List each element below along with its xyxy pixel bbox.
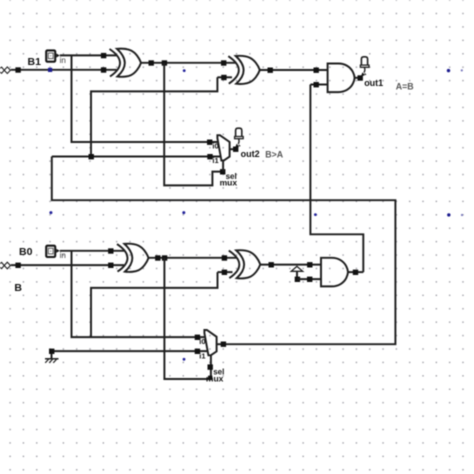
xor gate U1 (top xor1) xyxy=(110,49,142,77)
svg-text:A=B: A=B xyxy=(396,81,414,91)
junction i1 net at x91 xyxy=(89,154,94,159)
wire feedback and0 output up to and1 input B xyxy=(310,85,363,273)
node blue dot d xyxy=(314,213,317,216)
svg-text:i0: i0 xyxy=(212,141,218,150)
ground symbol xyxy=(45,353,59,363)
wire and1 input B xyxy=(310,84,327,86)
junction xor1t input B xyxy=(101,67,106,72)
node blue dot a xyxy=(183,69,186,72)
junction xor1b out a xyxy=(155,255,160,260)
wire i1 net long loop to mux0 output xyxy=(52,157,396,345)
wire sel path from xor1t out to mux1 sel xyxy=(164,63,222,186)
junction xor2t output xyxy=(268,68,273,73)
junction xor1t out a xyxy=(149,60,154,65)
junction mux0 output xyxy=(221,342,226,347)
junction vdd stub xyxy=(295,277,300,282)
svg-text:i0: i0 xyxy=(199,337,205,346)
wire B1 to xor1t input B xyxy=(11,69,117,71)
node blue dot g xyxy=(182,211,185,214)
wire ground to mux0 i1 xyxy=(52,350,209,352)
xor gate U6 (bottom xor2) xyxy=(229,250,260,278)
in port in1 xyxy=(46,50,59,61)
wire in1 drop to mux1 i0 xyxy=(72,55,219,142)
junction xor1t input A xyxy=(101,53,106,58)
svg-text:mux: mux xyxy=(220,178,238,188)
port B1 bowtie xyxy=(0,67,10,74)
wire xor1t output to xor2t input A xyxy=(141,62,236,64)
svg-text:mux: mux xyxy=(206,373,224,383)
node blue dot h xyxy=(447,213,450,216)
xor gate U5 (bottom xor1) xyxy=(117,244,149,272)
junction xor1b input A xyxy=(108,248,113,253)
junction xor2t input B xyxy=(221,75,226,80)
wire mux0 output stub xyxy=(217,343,221,345)
junction mux1 output xyxy=(233,147,238,152)
wire xor2t input B xyxy=(217,76,232,78)
junction mux0 sel xyxy=(208,364,213,369)
junction xor2b input A xyxy=(222,255,227,260)
junction and0 output xyxy=(353,270,358,275)
svg-text:out1: out1 xyxy=(364,78,383,88)
junction mux1 i1 xyxy=(207,154,212,159)
junction mux1 sel xyxy=(220,169,225,174)
wire xor2b input B xyxy=(218,271,233,273)
wire mux1 output stub xyxy=(230,148,234,150)
junction mux0 i0 xyxy=(195,335,200,340)
junction and1 input B xyxy=(314,82,319,87)
svg-text:in: in xyxy=(60,56,66,65)
svg-text:B>A: B>A xyxy=(265,150,283,160)
wire mux1 sel stub xyxy=(222,160,224,171)
led probe out1 xyxy=(360,57,369,77)
led probe out2 xyxy=(235,128,244,148)
in port in0 xyxy=(46,246,59,257)
wire feedback xor2t.B down to i1 net xyxy=(91,77,217,156)
junction xor1t out b xyxy=(162,60,167,65)
wire vdd to and0 input B xyxy=(297,278,321,280)
and gate U7 (bottom and) xyxy=(321,258,348,287)
wire i1 net horizontal xyxy=(52,156,221,158)
junction at B1 port xyxy=(15,67,20,72)
junction and0 input B xyxy=(307,277,312,282)
wire and0 output xyxy=(348,271,363,273)
svg-text:in: in xyxy=(60,251,66,260)
wire and1 output xyxy=(355,77,363,79)
junction xor2b output xyxy=(269,262,274,267)
port B0 bowtie xyxy=(0,262,10,269)
node blue dot f xyxy=(49,211,52,214)
node blue B1 wire xyxy=(48,68,52,72)
junction at B port xyxy=(15,263,20,268)
wire B to xor1b input B xyxy=(11,264,124,266)
junction xor1b input B xyxy=(108,263,113,268)
and gate U3 (top and) xyxy=(328,64,355,93)
junction mux0 sel corner xyxy=(208,376,212,380)
wire in0 drop to mux0 i0 xyxy=(72,251,206,337)
junction and1 input A xyxy=(314,68,319,73)
junction mux1 i0 xyxy=(207,140,212,145)
wire xor2t output to and1 input A xyxy=(260,69,328,71)
svg-text:i1: i1 xyxy=(212,156,218,165)
wire in0 to xor1b input A xyxy=(60,250,124,252)
junction and0 input A xyxy=(307,262,312,267)
mux U8 (bottom mux) xyxy=(204,330,216,355)
junction and1 output xyxy=(358,75,363,80)
junction xor2t input A xyxy=(221,60,226,65)
node blue dot e xyxy=(183,358,186,361)
wire xor1b output to xor2b input A xyxy=(148,257,236,259)
junction mux0 i1 xyxy=(195,349,200,354)
wire in1 to xor1t input A xyxy=(60,54,117,56)
wire xor2b output to and0 input A xyxy=(260,264,321,266)
svg-text:out2: out2 xyxy=(241,149,260,159)
svg-text:B: B xyxy=(14,282,22,294)
xor gate U2 (top xor2) xyxy=(228,56,259,84)
node blue dot i xyxy=(461,214,463,216)
svg-text:B1: B1 xyxy=(28,56,42,68)
junction xor1b out b xyxy=(162,255,167,260)
node blue dot b xyxy=(447,69,450,72)
mux U4 (top mux) xyxy=(217,135,229,160)
wire sel path from xor1b out to mux0 sel xyxy=(164,258,211,379)
vdd triangle symbol xyxy=(291,266,303,279)
wire feedback xor2b.B down to i0 net xyxy=(91,272,218,337)
junction xor2b input B xyxy=(222,270,227,275)
svg-text:i1: i1 xyxy=(199,351,205,360)
node blue dot c xyxy=(461,69,463,71)
junction ground end xyxy=(49,349,54,354)
svg-text:B0: B0 xyxy=(19,246,33,258)
